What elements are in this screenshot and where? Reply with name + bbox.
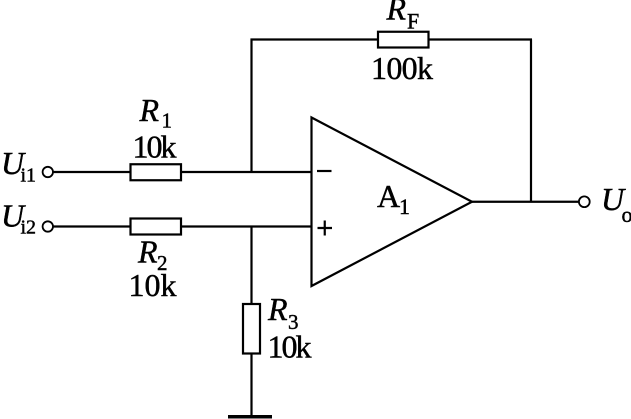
wire: Ui2 terminal to R2 left lead: [53, 225, 131, 227]
svg-text:o: o: [622, 202, 631, 227]
label R2: [137, 234, 168, 276]
wire: R1 right lead to inverting input of op-amp: [181, 171, 312, 173]
svg-text:1: 1: [399, 194, 410, 219]
wire: top feedback lead, RF right to corner: [429, 38, 533, 40]
label Ui2: [1, 198, 36, 239]
wire: feedback vertical down to output net: [530, 40, 532, 202]
op-amp A1 (triangle): [312, 118, 473, 287]
svg-text:R: R: [267, 291, 288, 327]
terminal Uo (circle): [579, 196, 590, 207]
wire: top feedback lead, node to RF left: [251, 38, 379, 40]
label R1: [139, 92, 173, 133]
resistor R2 (body): [131, 219, 182, 235]
label RF: [386, 0, 420, 33]
label Ui1: [1, 145, 36, 187]
svg-text:100k: 100k: [371, 50, 433, 86]
wire: op-amp output to Uo terminal: [471, 201, 579, 203]
svg-text:i1: i1: [21, 165, 37, 187]
label A1 (op-amp designator): [377, 178, 410, 219]
op-amp A1 inverting pin marker (minus): [317, 170, 332, 172]
svg-text:R: R: [139, 92, 160, 128]
svg-text:R: R: [386, 0, 407, 27]
svg-text:10k: 10k: [129, 267, 177, 303]
terminal Ui2 (circle): [43, 221, 53, 231]
resistor R1 (body): [131, 164, 182, 180]
wire: R3 bottom lead down to ground: [250, 354, 252, 416]
svg-text:R: R: [137, 234, 158, 270]
resistor R3 (body): [243, 304, 260, 354]
wire: non-inverting node down to R3 top lead: [250, 227, 252, 305]
op-amp A1 non-inverting pin marker (plus): [318, 221, 333, 236]
svg-text:A: A: [377, 178, 400, 214]
svg-text:10k: 10k: [133, 129, 177, 165]
label Uo: [601, 181, 631, 227]
wire: Ui1 terminal to R1 left lead: [53, 171, 131, 173]
svg-text:F: F: [407, 8, 419, 33]
svg-text:i2: i2: [21, 217, 37, 239]
terminal Ui1 (circle): [43, 167, 53, 177]
svg-text:10k: 10k: [268, 329, 312, 365]
label R3: [267, 291, 299, 334]
wire: R2 right lead to non-inverting input of op-amp: [181, 225, 312, 227]
resistor RF (body): [378, 32, 429, 48]
ground: [228, 415, 272, 419]
wire: feedback vertical from inverting input node: [250, 39, 252, 173]
